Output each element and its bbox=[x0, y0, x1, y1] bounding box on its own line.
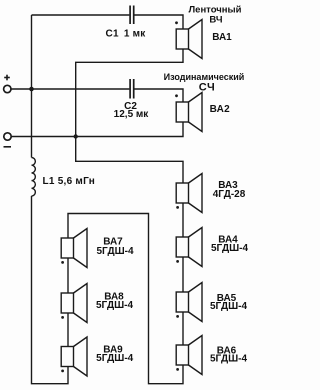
svg-text:ВА1: ВА1 bbox=[212, 32, 232, 43]
svg-text:5ГДШ-4: 5ГДШ-4 bbox=[210, 353, 247, 364]
svg-text:5ГДШ-4: 5ГДШ-4 bbox=[96, 353, 133, 364]
svg-text:С1 1 мк: С1 1 мк bbox=[106, 29, 147, 40]
svg-text:СЧ: СЧ bbox=[199, 82, 215, 94]
svg-text:5ГДШ-4: 5ГДШ-4 bbox=[211, 243, 248, 254]
svg-text:5ГДШ-4: 5ГДШ-4 bbox=[96, 300, 133, 311]
svg-text:4ГД-28: 4ГД-28 bbox=[213, 189, 246, 200]
svg-text:5ГДШ-4: 5ГДШ-4 bbox=[96, 246, 133, 257]
svg-text:ВЧ: ВЧ bbox=[209, 15, 222, 26]
svg-text:ВА2: ВА2 bbox=[210, 104, 231, 115]
svg-text:L1 5,6 мГн: L1 5,6 мГн bbox=[43, 176, 96, 187]
svg-text:12,5 мк: 12,5 мк bbox=[114, 109, 150, 120]
svg-text:Изодинамический: Изодинамический bbox=[164, 72, 245, 82]
svg-text:5ГДШ-4: 5ГДШ-4 bbox=[210, 301, 247, 312]
